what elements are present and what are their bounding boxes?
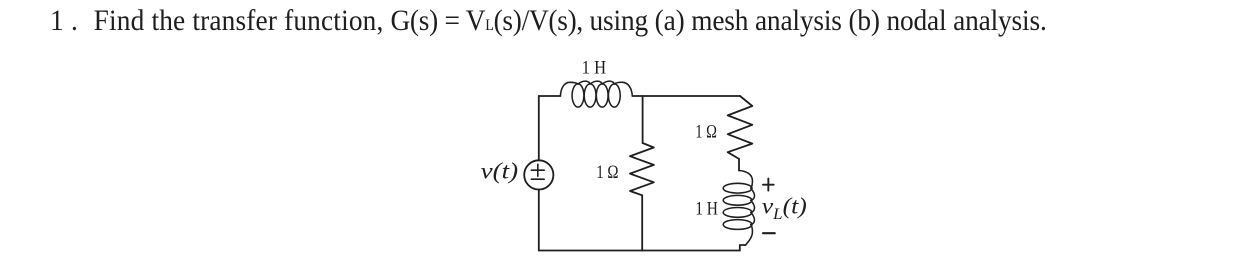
resistor R1 1ohm middle zigzag — [630, 143, 654, 195]
wire middle vertical lower — [641, 195, 643, 250]
wire top-left horizontal segment — [539, 95, 561, 97]
label plus sign for vL — [763, 179, 774, 191]
svg-text:v(t): v(t) — [481, 158, 519, 183]
svg-text:1 Ω: 1 Ω — [695, 123, 717, 143]
svg-text:vL(t): vL(t) — [762, 193, 807, 223]
resistor R2 1ohm right zigzag — [728, 96, 753, 159]
inductor L2 1H vertical coil — [723, 171, 754, 246]
voltage source polarity marks — [531, 164, 544, 179]
wire top-right horizontal segment — [632, 95, 740, 97]
wire bottom horizontal — [539, 250, 740, 252]
voltage source v(t) — [524, 160, 553, 189]
wire middle vertical upper — [642, 96, 644, 143]
wire left vertical upper — [538, 96, 540, 160]
wire bottom-right jog — [740, 245, 746, 251]
label minus sign for vL — [763, 232, 775, 234]
inductor L1 1H horizontal coil — [560, 81, 632, 107]
wire right vertical between resistor and inductor — [738, 159, 740, 171]
svg-text:1 H: 1 H — [582, 58, 607, 78]
problem statement text — [50, 4, 1047, 38]
svg-text:1 H: 1 H — [695, 200, 718, 220]
svg-text:1 Ω: 1 Ω — [596, 163, 618, 183]
wire left vertical lower — [538, 190, 540, 251]
